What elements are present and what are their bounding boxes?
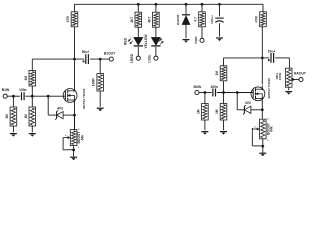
svg-text:1: 1	[78, 147, 80, 149]
svg-text:10u+: 10u+	[268, 50, 276, 54]
svg-text:4V3: 4V3	[57, 106, 63, 110]
svg-text:47R: 47R	[255, 16, 259, 23]
svg-text:PWR: PWR	[194, 36, 198, 44]
svg-text:YELLOW: YELLOW	[144, 34, 148, 49]
svg-text:100u+: 100u+	[210, 15, 214, 24]
svg-text:1M: 1M	[215, 71, 219, 76]
svg-text:100n: 100n	[210, 85, 218, 89]
svg-text:LYEL: LYEL	[147, 54, 151, 62]
svg-text:2: 2	[254, 127, 256, 129]
svg-text:1M: 1M	[196, 109, 200, 114]
svg-text:RAOUT: RAOUT	[294, 71, 306, 75]
svg-text:50u+: 50u+	[82, 50, 90, 54]
svg-text:64k: 64k	[270, 126, 274, 132]
svg-text:1M: 1M	[5, 114, 9, 119]
svg-text:4.7: 4.7	[194, 17, 198, 22]
svg-text:100R: 100R	[92, 78, 96, 87]
svg-text:1N4005: 1N4005	[176, 14, 180, 25]
svg-text:1M: 1M	[24, 76, 28, 81]
svg-text:B2IN: B2IN	[193, 85, 201, 89]
svg-text:2: 2	[65, 135, 67, 137]
svg-text:47R: 47R	[66, 16, 70, 23]
svg-text:3: 3	[78, 129, 80, 131]
svg-text:64k: 64k	[81, 135, 85, 141]
svg-text:3: 3	[267, 119, 269, 121]
svg-text:4K7: 4K7	[147, 17, 151, 23]
svg-text:100R: 100R	[278, 72, 282, 80]
svg-text:LRED: LRED	[130, 53, 134, 63]
svg-text:RED: RED	[123, 37, 127, 45]
svg-text:4K7: 4K7	[130, 17, 134, 23]
svg-text:1M: 1M	[24, 114, 28, 119]
svg-text:100n: 100n	[19, 88, 27, 92]
svg-text:1: 1	[267, 140, 269, 142]
svg-text:1M: 1M	[215, 109, 219, 114]
svg-text:1W4: 1W4	[275, 73, 279, 80]
svg-text:B1OUT: B1OUT	[104, 52, 115, 56]
svg-text:IRF510 TO220: IRF510 TO220	[82, 88, 86, 109]
svg-text:B1IN: B1IN	[2, 88, 10, 92]
svg-text:4V3: 4V3	[245, 101, 251, 105]
svg-text:IRF510 TO220: IRF510 TO220	[267, 78, 271, 99]
